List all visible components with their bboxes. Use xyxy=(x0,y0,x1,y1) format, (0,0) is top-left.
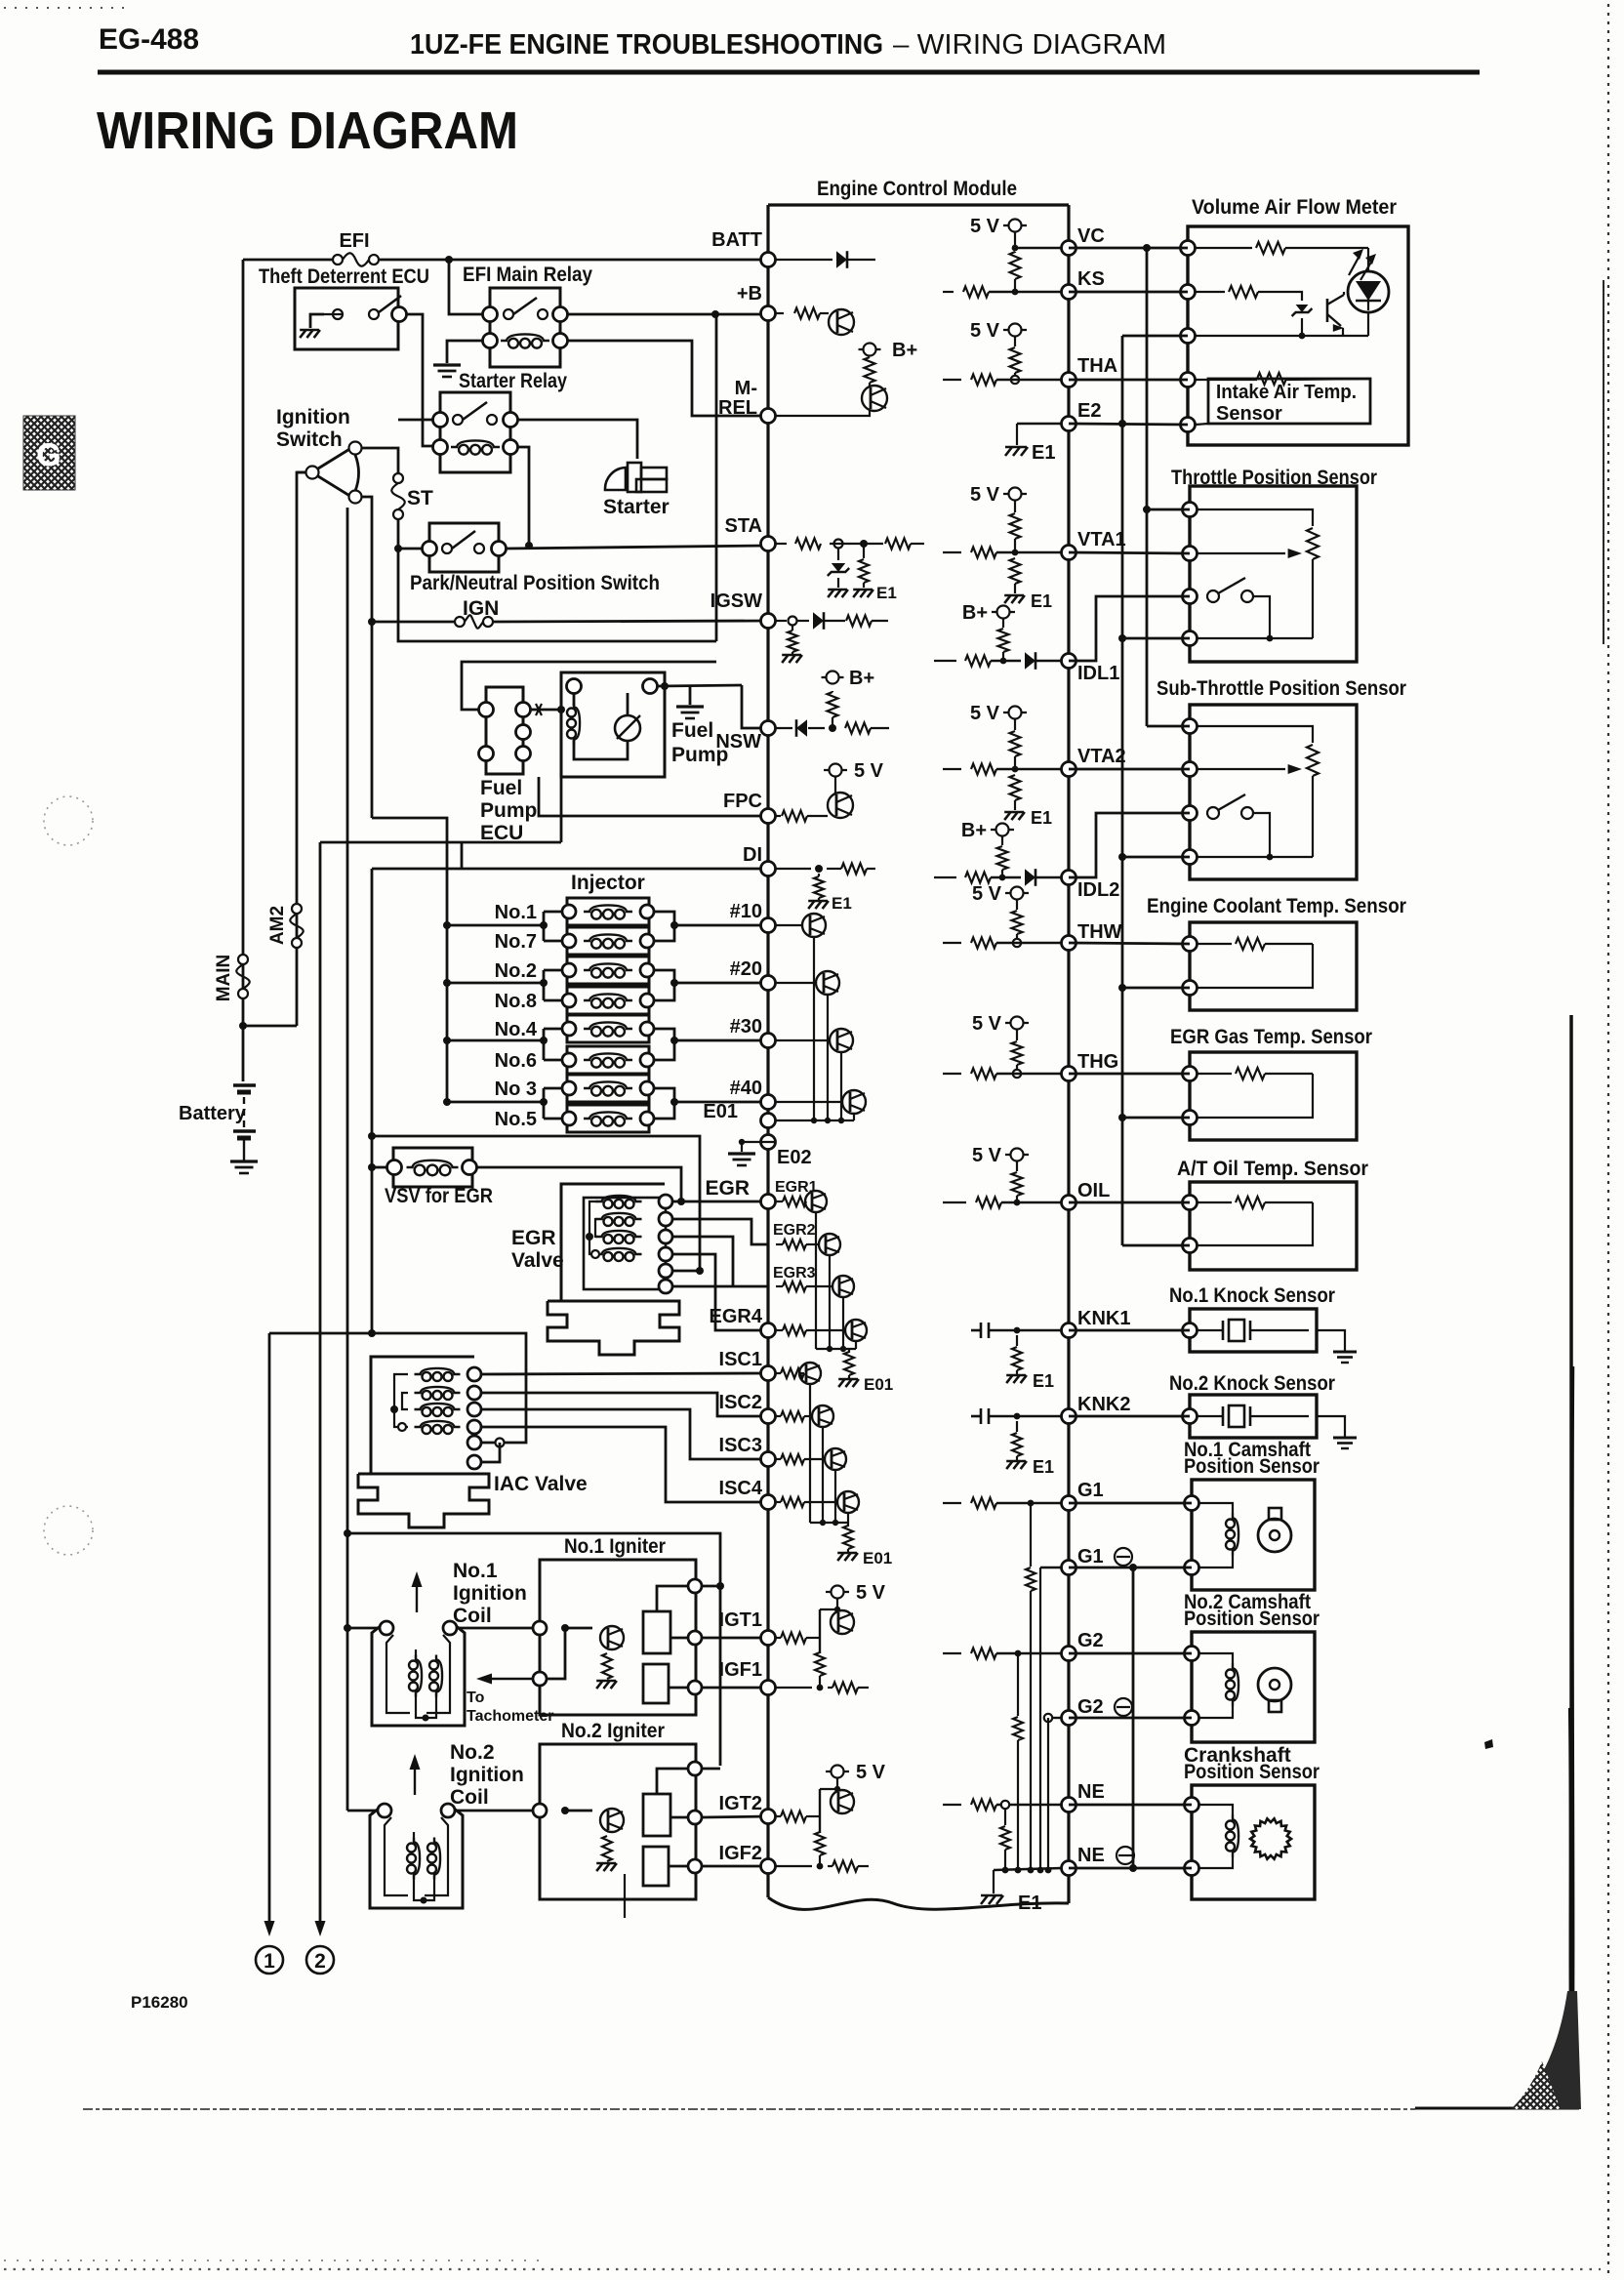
svg-text:EFI: EFI xyxy=(339,230,369,252)
no.2 igniter input pin xyxy=(533,1804,547,1817)
IDL1 pullup resistor xyxy=(998,629,1009,652)
B+ resistor xyxy=(865,357,875,383)
BATT internal diode xyxy=(776,259,832,261)
wire sub-TPS E2 to bus xyxy=(1122,856,1190,859)
junction +B feeder xyxy=(711,310,719,318)
fuse IGN xyxy=(455,617,465,627)
IGF1 internal resistor xyxy=(776,1687,812,1689)
EGR driver transistor 4 xyxy=(776,1329,783,1331)
no.2 igniter output stage 1 xyxy=(643,1794,670,1836)
no.1 cam pickup coil xyxy=(1199,1503,1233,1514)
TPS wiper arrow xyxy=(1198,552,1285,554)
svg-text:WIRING DIAGRAM: WIRING DIAGRAM xyxy=(97,102,518,160)
ECM pin IGT1 xyxy=(761,1631,776,1646)
wire IAC feed from feeder xyxy=(368,1329,376,1337)
EGR driver collector bus xyxy=(815,1212,817,1349)
wire starter relay out to starter xyxy=(518,420,637,459)
E2 sensor bus vertical xyxy=(1121,336,1124,1245)
circled number 2 xyxy=(306,1946,334,1974)
battery ground xyxy=(230,1160,258,1162)
IDL1 B+ supply xyxy=(992,611,1015,613)
wire IGN row xyxy=(372,621,455,624)
No.2 Knock Sensor pin xyxy=(1183,1409,1198,1424)
IDL2 internal diode xyxy=(1025,869,1035,886)
EGR valve pins xyxy=(659,1195,672,1208)
svg-text:E1: E1 xyxy=(1033,1457,1054,1477)
svg-text:#30: #30 xyxy=(730,1016,762,1038)
svg-text:KNK2: KNK2 xyxy=(1077,1394,1130,1415)
svg-text:5 V: 5 V xyxy=(854,760,884,782)
wire A/T oil sensor return xyxy=(1122,1244,1190,1247)
ignition switch body xyxy=(318,448,358,497)
wire THG row xyxy=(1069,1073,1190,1076)
svg-text:ECU: ECU xyxy=(480,822,523,844)
svg-text:Coil: Coil xyxy=(453,1605,492,1627)
wire ISC2 routing xyxy=(481,1393,768,1416)
wire no.2 coil to igniter xyxy=(455,1810,535,1812)
svg-text:THW: THW xyxy=(1077,921,1122,943)
svg-text:EGR3: EGR3 xyxy=(773,1265,816,1282)
ECM top edge xyxy=(768,203,1069,206)
svg-text:REL: REL xyxy=(718,397,757,419)
svg-text:VTA2: VTA2 xyxy=(1077,746,1126,767)
ECM pin KNK1 xyxy=(1062,1323,1076,1338)
injector No.1 xyxy=(567,898,649,925)
IGT1 transistor xyxy=(836,1599,838,1609)
EGR Gas Temp. Sensor inner loop xyxy=(1198,1074,1313,1118)
ECM pin VTA1 xyxy=(1062,546,1076,560)
wire EGR common top xyxy=(372,1136,700,1271)
theft switch xyxy=(333,309,343,319)
injector driver transistor 4 xyxy=(776,1101,841,1103)
no.2 cam pins xyxy=(1185,1647,1199,1661)
A/T Oil Temp. Sensor box xyxy=(1190,1182,1357,1270)
IGT2 5V supply xyxy=(826,1771,849,1772)
wire EGR3 routing xyxy=(672,1237,733,1286)
svg-text:E1: E1 xyxy=(1033,1371,1054,1391)
TPS potentiometer resistor xyxy=(1307,528,1319,559)
injector pair right bracket xyxy=(654,970,674,1000)
no.2 igniter output stage 2 xyxy=(643,1847,669,1886)
wire ignition switch AM to AM2 xyxy=(297,471,305,474)
svg-text:IDL2: IDL2 xyxy=(1077,879,1119,901)
VAFM zener xyxy=(1290,292,1302,301)
injector No 3 xyxy=(567,1075,649,1102)
svg-text:2: 2 xyxy=(314,1950,326,1973)
wire IDL1 to TPS xyxy=(1069,596,1190,661)
wire EGR2 routing xyxy=(672,1219,768,1244)
ECM pin EGR xyxy=(761,1195,776,1209)
svg-text:IGT1: IGT1 xyxy=(719,1609,762,1631)
svg-text:STA: STA xyxy=(724,515,762,537)
wire TPS E2 to bus xyxy=(1122,637,1190,640)
svg-text:#10: #10 xyxy=(730,901,762,922)
no.1 coil pins xyxy=(380,1621,393,1635)
starter relay coil xyxy=(459,445,468,455)
No.1 Knock Sensor box xyxy=(1190,1309,1317,1352)
THA internal resistor xyxy=(943,379,961,381)
FPC internal resistor xyxy=(776,815,781,817)
wire IGN fuse to IGSW pin xyxy=(493,621,768,622)
Engine Coolant Temp. Sensor resistor xyxy=(1198,943,1232,945)
EGR valve coils xyxy=(603,1200,612,1208)
VAFM LED arrows xyxy=(1349,254,1360,275)
ECM pin BATT xyxy=(761,253,776,267)
ISC driver collector bus xyxy=(809,1384,811,1523)
svg-text:EG-488: EG-488 xyxy=(99,23,199,56)
IDL2 internal resistor xyxy=(934,876,956,878)
ECM pin G2- xyxy=(1062,1711,1076,1726)
svg-text:No.1: No.1 xyxy=(453,1560,498,1582)
THA pullup resistor xyxy=(1010,347,1021,373)
THA 5V supply xyxy=(1003,329,1027,331)
ECM pin G1 xyxy=(1062,1496,1076,1511)
punch hole artifact upper xyxy=(44,796,93,845)
no.2 igniter ground stem xyxy=(624,1874,626,1918)
svg-text:E1: E1 xyxy=(1032,442,1055,464)
wire ST column down to IGN row level xyxy=(398,549,716,641)
TPS pins xyxy=(1183,503,1198,517)
Volume Air Flow Meter box xyxy=(1188,226,1408,445)
no.2 cam pickup coil xyxy=(1199,1653,1233,1664)
wire VTA1 row xyxy=(1069,552,1190,553)
THG pullup resistor xyxy=(1012,1041,1023,1065)
DI internal resistor xyxy=(776,868,811,870)
no.2 coil HT output arrow xyxy=(414,1764,416,1795)
sub-TPS potentiometer resistor xyxy=(1307,745,1319,776)
STA zener to ground xyxy=(837,549,839,560)
IGF2 internal resistor xyxy=(776,1865,812,1867)
starter body xyxy=(605,468,626,490)
svg-text:#20: #20 xyxy=(730,958,762,980)
Starter Relay box xyxy=(440,392,510,472)
EGR driver transistor 1 xyxy=(776,1201,783,1202)
svg-text:Ignition: Ignition xyxy=(276,406,350,428)
fuel pump inner wiring xyxy=(573,693,576,706)
sub-TPS wiper arrow xyxy=(1198,768,1285,770)
svg-text:G: G xyxy=(37,437,61,472)
crank pins xyxy=(1185,1798,1199,1812)
svg-text:Tachometer: Tachometer xyxy=(467,1708,554,1725)
ECM pin ISC1 xyxy=(761,1366,776,1381)
svg-text:5 V: 5 V xyxy=(970,216,1000,237)
wire starter relay coil to STA junction xyxy=(518,447,529,546)
wire relay coil right to M-REL xyxy=(568,341,768,416)
THW 5V supply xyxy=(1005,892,1029,894)
svg-text:5 V: 5 V xyxy=(972,883,1002,905)
svg-text:IGF2: IGF2 xyxy=(719,1843,762,1864)
fuel pump coil xyxy=(567,708,576,716)
wire IG1 down (coil feed vertical) xyxy=(361,497,372,818)
svg-text:5 V: 5 V xyxy=(970,320,1000,342)
svg-text:5 V: 5 V xyxy=(970,484,1000,506)
IAC pin6 link xyxy=(481,1443,500,1462)
NE pulldown resistor xyxy=(1004,1809,1006,1825)
wire THW row xyxy=(1069,943,1190,944)
injector No.7 xyxy=(567,927,649,955)
svg-text:Fuel: Fuel xyxy=(671,719,713,742)
E02 chassis ground xyxy=(728,1152,755,1155)
tachometer output pin xyxy=(533,1672,547,1686)
no.1 cam rotor xyxy=(1269,1508,1281,1520)
injector driver transistor 1 xyxy=(776,924,801,926)
fuel pump ground xyxy=(676,705,704,708)
wire EGR3/pin6 row xyxy=(672,1285,768,1288)
A/T Oil Temp. Sensor inner loop xyxy=(1198,1202,1313,1245)
svg-text:Engine Coolant Temp. Sensor: Engine Coolant Temp. Sensor xyxy=(1147,895,1406,917)
IAC valve pins xyxy=(467,1367,481,1381)
svg-text:IDL1: IDL1 xyxy=(1077,663,1119,684)
fuel pump assembly box xyxy=(561,672,665,777)
ECM pin FPC xyxy=(761,809,776,824)
No.2 Igniter box xyxy=(540,1744,696,1899)
junction VSV feeder at EGR common xyxy=(368,1132,376,1140)
KNK1 resistor to ground xyxy=(1016,1335,1018,1346)
Intake Air Temp Sensor box xyxy=(1208,379,1370,424)
starter relay switch pins xyxy=(433,413,448,427)
ECM pin VC xyxy=(1062,241,1076,256)
No.1 ignition coil body xyxy=(372,1621,465,1726)
wire #10 row xyxy=(674,924,768,927)
OIL internal resistor xyxy=(943,1201,966,1203)
E1 ground at E2 xyxy=(1005,447,1012,456)
sub-TPS bottom rail xyxy=(1198,856,1313,858)
wire relay coil left to ground xyxy=(447,341,482,363)
svg-text:5 V: 5 V xyxy=(972,1145,1002,1166)
svg-text:5 V: 5 V xyxy=(972,1013,1002,1035)
EGR Gas Temp. Sensor pins xyxy=(1183,1067,1198,1081)
VC wire to pin xyxy=(1014,232,1016,248)
IAC valve outline xyxy=(371,1357,474,1474)
wire VSV feeder vertical xyxy=(371,869,374,1333)
svg-text:Position Sensor: Position Sensor xyxy=(1184,1761,1319,1783)
header rule xyxy=(98,70,1480,75)
arrow-2 vertical wire xyxy=(319,842,322,1925)
FPC 5V supply xyxy=(824,769,847,771)
svg-text:No.1 Igniter: No.1 Igniter xyxy=(564,1535,666,1558)
punch hole artifact lower xyxy=(44,1506,93,1555)
svg-text:No.6: No.6 xyxy=(495,1050,537,1072)
fuel pump inner pins xyxy=(567,679,582,694)
bottom scan line xyxy=(83,2108,1415,2110)
wire IGT1 row xyxy=(702,1637,768,1640)
arrow-1 vertical wire xyxy=(268,1333,271,1925)
FPC transistor xyxy=(828,793,853,818)
svg-text:B+: B+ xyxy=(961,820,987,841)
svg-text:5 V: 5 V xyxy=(970,703,1000,724)
no.1 igniter transistor xyxy=(600,1626,624,1649)
EFI main relay coil pins xyxy=(483,334,498,348)
igniter internal base node xyxy=(561,1624,569,1632)
A/T Oil Temp. Sensor resistor xyxy=(1198,1201,1232,1203)
IGT2 internal resistor xyxy=(776,1815,781,1817)
sub-TPS potentiometer wire xyxy=(1198,726,1313,743)
svg-text:E2: E2 xyxy=(1077,400,1101,422)
ECM right edge xyxy=(1067,205,1070,1903)
NE- bus wire xyxy=(994,1868,1061,1870)
injector pair left bracket xyxy=(543,970,546,1000)
shield bus vertical xyxy=(1132,1567,1135,1868)
VTA1 pullup resistor xyxy=(1010,513,1021,539)
svg-text:– WIRING DIAGRAM: – WIRING DIAGRAM xyxy=(893,29,1166,61)
No.1 Knock Sensor ground wire xyxy=(1317,1330,1345,1352)
NE internal resistor xyxy=(943,1804,961,1806)
EFI main relay coil xyxy=(508,339,518,348)
wire G2 row xyxy=(1069,1652,1192,1655)
svg-text:Coil: Coil xyxy=(450,1786,489,1809)
svg-text:Volume Air Flow Meter: Volume Air Flow Meter xyxy=(1192,196,1397,219)
sub-TPS idle switch xyxy=(1207,807,1219,819)
Engine Coolant Temp. Sensor pins xyxy=(1183,937,1198,952)
VTA2 pulldown resistor xyxy=(1010,775,1021,800)
ECM pin IDL1 xyxy=(1062,654,1076,669)
wire NE row xyxy=(1069,1804,1192,1807)
no.2 igniter resistor xyxy=(602,1836,612,1861)
VTA1 pulldown resistor xyxy=(1010,558,1021,584)
wire #30 row xyxy=(674,1039,768,1042)
no.1 igniter input pin xyxy=(533,1621,547,1635)
IGT2 transistor xyxy=(836,1778,838,1789)
injector No.5 xyxy=(567,1105,649,1132)
svg-text:E01: E01 xyxy=(863,1549,892,1567)
wire park/neutral to STA pin xyxy=(507,546,768,549)
VAFM potentiometer xyxy=(1196,247,1252,249)
VC 5V supply xyxy=(1003,224,1027,226)
bottom dotted artifacts xyxy=(4,2268,1601,2270)
No.1 Knock Sensor pin xyxy=(1183,1323,1198,1338)
injector pair right bracket xyxy=(654,912,674,941)
No.2 Knock Sensor ground xyxy=(1333,1437,1357,1440)
svg-text:EGR4: EGR4 xyxy=(710,1306,763,1327)
ECM pin #40 xyxy=(761,1095,776,1110)
wire OIL row xyxy=(1069,1201,1190,1204)
VAFM phototransistor xyxy=(1326,299,1329,322)
no.2 igniter transistor xyxy=(600,1809,624,1832)
IGSW resistor to ground xyxy=(792,626,793,631)
no.2 coil windings xyxy=(407,1843,416,1852)
svg-text:E1: E1 xyxy=(832,894,852,913)
no.1 igniter ground xyxy=(596,1681,602,1689)
wire coil to igniter xyxy=(457,1627,535,1630)
IGT2 base resistor down xyxy=(815,1832,825,1855)
ECM pin OIL xyxy=(1062,1196,1076,1210)
svg-text:DI: DI xyxy=(743,844,762,866)
svg-text:KS: KS xyxy=(1077,268,1105,290)
svg-text:EGR: EGR xyxy=(511,1227,556,1249)
svg-text:No.2: No.2 xyxy=(450,1741,495,1764)
wire coolant sensor return xyxy=(1122,987,1190,990)
svg-text:Battery: Battery xyxy=(179,1103,247,1124)
wire EGR1 row xyxy=(672,1201,768,1203)
wire KS to VAFM xyxy=(1069,291,1188,294)
EGR valve left bracket xyxy=(589,1201,597,1254)
ECM pin NE- xyxy=(1062,1861,1076,1876)
E02 ground link xyxy=(742,1142,776,1152)
right margin solid segment xyxy=(1603,280,1604,644)
tachometer arrow xyxy=(488,1678,533,1680)
svg-text:G2: G2 xyxy=(1077,1630,1104,1651)
svg-text:Position Sensor: Position Sensor xyxy=(1184,1455,1319,1478)
wire #40 row xyxy=(674,1101,768,1104)
wire G1- row xyxy=(1069,1567,1192,1569)
svg-text:E1: E1 xyxy=(1018,1893,1041,1914)
svg-text:Position Sensor: Position Sensor xyxy=(1184,1608,1319,1630)
ECM pin M- xyxy=(761,409,776,424)
svg-text:IGF1: IGF1 xyxy=(719,1659,762,1681)
wire fuel pump bottom stub xyxy=(560,777,563,842)
svg-text:No 3: No 3 xyxy=(495,1079,537,1100)
STA internal resistor 1 xyxy=(776,543,787,545)
ECM pin IGF1 xyxy=(761,1681,776,1695)
wire ISC1 row xyxy=(481,1373,768,1374)
ECM pin STA xyxy=(761,537,776,551)
svg-text:Engine Control Module: Engine Control Module xyxy=(817,178,1017,200)
VC sensor bus vertical xyxy=(1143,244,1151,252)
no.1 coil feed xyxy=(344,1624,351,1632)
fuel pump motor xyxy=(615,715,640,741)
wire EGR gas sensor return xyxy=(1122,1117,1190,1120)
svg-text:No.4: No.4 xyxy=(495,1019,538,1040)
svg-text:No.1: No.1 xyxy=(495,902,537,923)
no.1 igniter output stage 2 xyxy=(643,1664,669,1703)
ISC driver transistor 2 xyxy=(776,1415,781,1417)
injector No.6 xyxy=(567,1046,649,1074)
ECM bottom wavy edge xyxy=(768,1897,1069,1909)
svg-text:KNK1: KNK1 xyxy=(1077,1308,1130,1329)
wire VAFM E2 via bus xyxy=(1122,335,1188,338)
starter relay coil pins xyxy=(433,440,448,455)
no.2 igniter ground xyxy=(596,1863,602,1871)
svg-text:Starter Relay: Starter Relay xyxy=(459,370,567,392)
EGR valve flange xyxy=(548,1301,679,1355)
svg-text:EGR: EGR xyxy=(705,1177,750,1200)
svg-text:IGT2: IGT2 xyxy=(719,1793,762,1814)
right margin dotted border xyxy=(1607,4,1609,2276)
svg-text:E1: E1 xyxy=(1031,808,1052,828)
Sub-Throttle Position Sensor box xyxy=(1190,705,1357,879)
wire ISC4 routing xyxy=(481,1427,768,1502)
A/T Oil Temp. Sensor pins xyxy=(1183,1196,1198,1210)
wire EFI fuse to BATT pin xyxy=(380,259,768,262)
ECM pin NE xyxy=(1062,1798,1076,1812)
ECM pin IGF2 xyxy=(761,1859,776,1874)
wire DI branch up xyxy=(461,842,464,869)
svg-text:ST: ST xyxy=(407,487,433,509)
svg-text:No.8: No.8 xyxy=(495,991,537,1012)
wire fuel pump to ground and NSW xyxy=(661,682,669,690)
THG internal resistor xyxy=(943,1073,961,1075)
injector pair feed wire xyxy=(447,924,544,927)
crank toothed rotor xyxy=(1250,1818,1291,1858)
left main vertical wire (battery feed) xyxy=(242,260,245,1081)
svg-text:No.2 Knock Sensor: No.2 Knock Sensor xyxy=(1169,1372,1335,1395)
ISC driver transistor 3 xyxy=(776,1458,781,1460)
EFI main relay switch pins xyxy=(483,307,498,322)
svg-text:A/T Oil Temp. Sensor: A/T Oil Temp. Sensor xyxy=(1177,1158,1368,1180)
svg-text:EFI Main Relay: EFI Main Relay xyxy=(463,264,592,286)
wire IG2 to ST fuse xyxy=(361,448,398,473)
OIL 5V supply xyxy=(1005,1154,1029,1156)
ECM pin E02 xyxy=(761,1135,776,1150)
wire VTA2 row xyxy=(1069,768,1190,771)
svg-text:IGSW: IGSW xyxy=(710,590,762,612)
wire #20 row xyxy=(674,982,768,985)
EGR Gas Temp. Sensor resistor xyxy=(1198,1073,1232,1075)
svg-text:No.2 Igniter: No.2 Igniter xyxy=(561,1720,665,1742)
svg-text:NE: NE xyxy=(1077,1845,1105,1866)
ECM pin IGT2 xyxy=(761,1810,776,1824)
G2 pulldown resistor xyxy=(1017,1653,1019,1716)
